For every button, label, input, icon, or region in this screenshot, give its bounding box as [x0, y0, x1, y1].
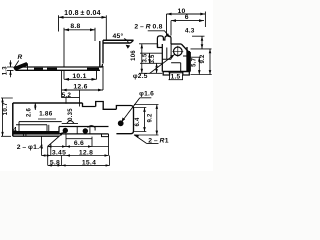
row line y155.5 [42, 155, 109, 157]
svg-text:12.6: 12.6 [73, 84, 87, 91]
dim 0.35 rotated [68, 108, 74, 121]
ext 5.7 top [191, 56, 202, 58]
dim 1.86 [39, 111, 53, 118]
svg-text:3.5: 3.5 [143, 53, 149, 63]
svg-text:R: R [18, 54, 23, 61]
9.2 dim line [156, 105, 158, 136]
svg-text:4: 4 [13, 127, 17, 133]
phi1.6 leader [122, 98, 152, 122]
5.2 box [62, 92, 72, 99]
dim 4.3 vertical line [201, 36, 203, 49]
5.7 dim line [198, 57, 200, 74]
strip dark dash 2 [47, 68, 57, 70]
dim line 10.1 [64, 78, 97, 80]
svg-text:9.2: 9.2 [200, 54, 206, 64]
rounded lobes (R0.8 tabs) [157, 36, 171, 48]
dim 9.2 rotated (bottom view) [148, 113, 154, 123]
extension line left of 10.8 [58, 15, 60, 31]
strip dark dash 1 [34, 68, 43, 70]
left edge [158, 44, 163, 72]
dim 9.2 rotated [200, 54, 206, 64]
dim 10.7 rotated [2, 102, 9, 115]
extension line right of 8.8 [94, 28, 96, 41]
ext lines left dims [139, 44, 162, 74]
6.6 box [74, 140, 84, 147]
left block left edge [12, 103, 14, 136]
dim 15.4 [82, 160, 96, 167]
inner steps left [162, 44, 187, 72]
phi2.5 leader [150, 55, 175, 74]
right wall [187, 47, 190, 72]
dim text 10 [177, 8, 185, 15]
2-phi1.4 label [17, 144, 44, 151]
small arc slot top [67, 121, 74, 124]
curve feature [88, 126, 96, 131]
1.3 ticks [7, 67, 14, 70]
dim 3.5 b rotated [150, 54, 156, 64]
left hook of strip [14, 63, 27, 71]
dim text 6 [185, 14, 189, 21]
chamfer [181, 44, 189, 52]
inner vertical pair mid [47, 125, 49, 131]
hole phi1.4 #2 [83, 128, 88, 133]
svg-text:10.1: 10.1 [72, 73, 86, 80]
svg-text:2 – R 0.8: 2 – R 0.8 [134, 24, 162, 31]
svg-text:6: 6 [185, 14, 189, 21]
dim line 12.6 [62, 89, 103, 91]
9.2 dim line [209, 49, 211, 75]
1.86 leader ticks [38, 118, 56, 120]
ext lines right of block [134, 105, 159, 136]
ext line right 12.6 (riser base down) [102, 66, 104, 90]
3.5b dim line [156, 63, 158, 73]
dim 3.45 [52, 149, 66, 156]
10.6 dim line [141, 44, 143, 74]
ext lines 10.1 [64, 71, 97, 80]
riser (vertical wall) [100, 40, 103, 67]
phi1.6 label [139, 90, 154, 97]
hole circle phi2.5 [174, 47, 183, 56]
svg-text:106: 106 [131, 50, 137, 61]
dim text 12.6 [73, 84, 87, 91]
left block bottom [13, 135, 59, 137]
tab up [96, 102, 117, 110]
svg-text:6.4: 6.4 [135, 117, 141, 127]
svg-text:2 – φ1.4: 2 – φ1.4 [17, 144, 44, 151]
10.7 dim line [2, 98, 4, 136]
2-R1 label [148, 138, 169, 145]
3.5a dim line [149, 53, 151, 63]
dim 2.6 rotated [26, 108, 32, 118]
right block [116, 106, 133, 134]
dim line 6 [171, 20, 204, 22]
top rail edge [13, 102, 83, 104]
dim 10.6 rotated [131, 50, 137, 61]
5.2 ext verticals [62, 70, 80, 107]
ext 10.7 [1, 98, 13, 136]
R0.8 leader [148, 31, 170, 37]
ext lines 4.3 [191, 36, 212, 49]
step to mid [83, 103, 96, 107]
svg-text:1.86: 1.86 [39, 111, 53, 118]
45° label [112, 32, 123, 40]
top edge [171, 43, 181, 45]
bottom thick bar left [13, 131, 59, 135]
45° leader arrow [124, 39, 129, 44]
small 4 label [13, 127, 17, 133]
ext left of 10 [166, 14, 168, 35]
dim 5.7 rotated [191, 57, 197, 67]
hole phi1.4 #1 [63, 128, 68, 133]
6.4 dim line [144, 108, 146, 132]
hole phi1.6 (filled dot) [118, 120, 124, 126]
inner verticals left [19, 122, 26, 137]
bottom edge [162, 71, 190, 73]
dim line 8.8 [64, 29, 95, 31]
2-phi1.4 leader [48, 132, 65, 147]
strip (horizontal) [14, 67, 103, 70]
svg-text:45°: 45° [112, 32, 123, 40]
2-R1 leader [134, 135, 159, 144]
mid rail outline [59, 127, 109, 134]
row line y165 [48, 164, 110, 166]
2-R0.8 label [134, 24, 162, 31]
R leader [15, 61, 19, 67]
ext left of 6 [170, 21, 172, 36]
svg-text:φ2.5: φ2.5 [133, 73, 148, 80]
dim text 10.1 [72, 73, 86, 80]
R label [18, 54, 23, 61]
extension line right of 10.8 [105, 15, 107, 40]
strip dark dash 3 [87, 68, 99, 70]
dim 6.4 rotated [135, 117, 141, 127]
dim 12.8 [79, 149, 93, 156]
ext right shared [204, 12, 206, 28]
1.5 box lines [169, 73, 184, 80]
row arrowheads [42, 145, 110, 166]
ext 9.2/5.7 bottom [191, 74, 212, 76]
extension line left of 8.8 [63, 28, 65, 67]
mid rail bottom step [102, 134, 109, 137]
riser base fillet [100, 64, 103, 67]
row verticals [42, 137, 110, 166]
dim text 4.3 [185, 27, 195, 34]
dim line 10 [167, 13, 206, 15]
svg-text:0.35: 0.35 [68, 108, 74, 121]
svg-text:3.5: 3.5 [150, 54, 156, 64]
dim 1.5 [171, 74, 181, 81]
svg-text:4.3: 4.3 [185, 27, 195, 34]
dim text 8.8 [70, 23, 80, 30]
dim 5.8 [50, 160, 60, 167]
foot A [163, 72, 169, 76]
svg-text:φ1.6: φ1.6 [139, 90, 154, 97]
dim line 10.8 [59, 16, 107, 18]
top flange [103, 40, 134, 43]
svg-text:2.6: 2.6 [26, 108, 32, 118]
dim 3.5 a rotated [143, 53, 149, 63]
dim 1.3 rotated [3, 66, 9, 76]
svg-text:5.7: 5.7 [191, 57, 197, 67]
inner line y124.8 [16, 124, 47, 126]
svg-text:10.8 ± 0.04: 10.8 ± 0.04 [64, 10, 101, 17]
dim text 10.8±0.04 [64, 10, 101, 17]
foot B [183, 72, 190, 76]
phi2.5 label [133, 73, 148, 80]
2.6 dim line [34, 103, 36, 110]
inner line y121.6 [19, 121, 62, 123]
svg-text:9.2: 9.2 [148, 113, 154, 123]
svg-text:8.8: 8.8 [70, 23, 80, 30]
